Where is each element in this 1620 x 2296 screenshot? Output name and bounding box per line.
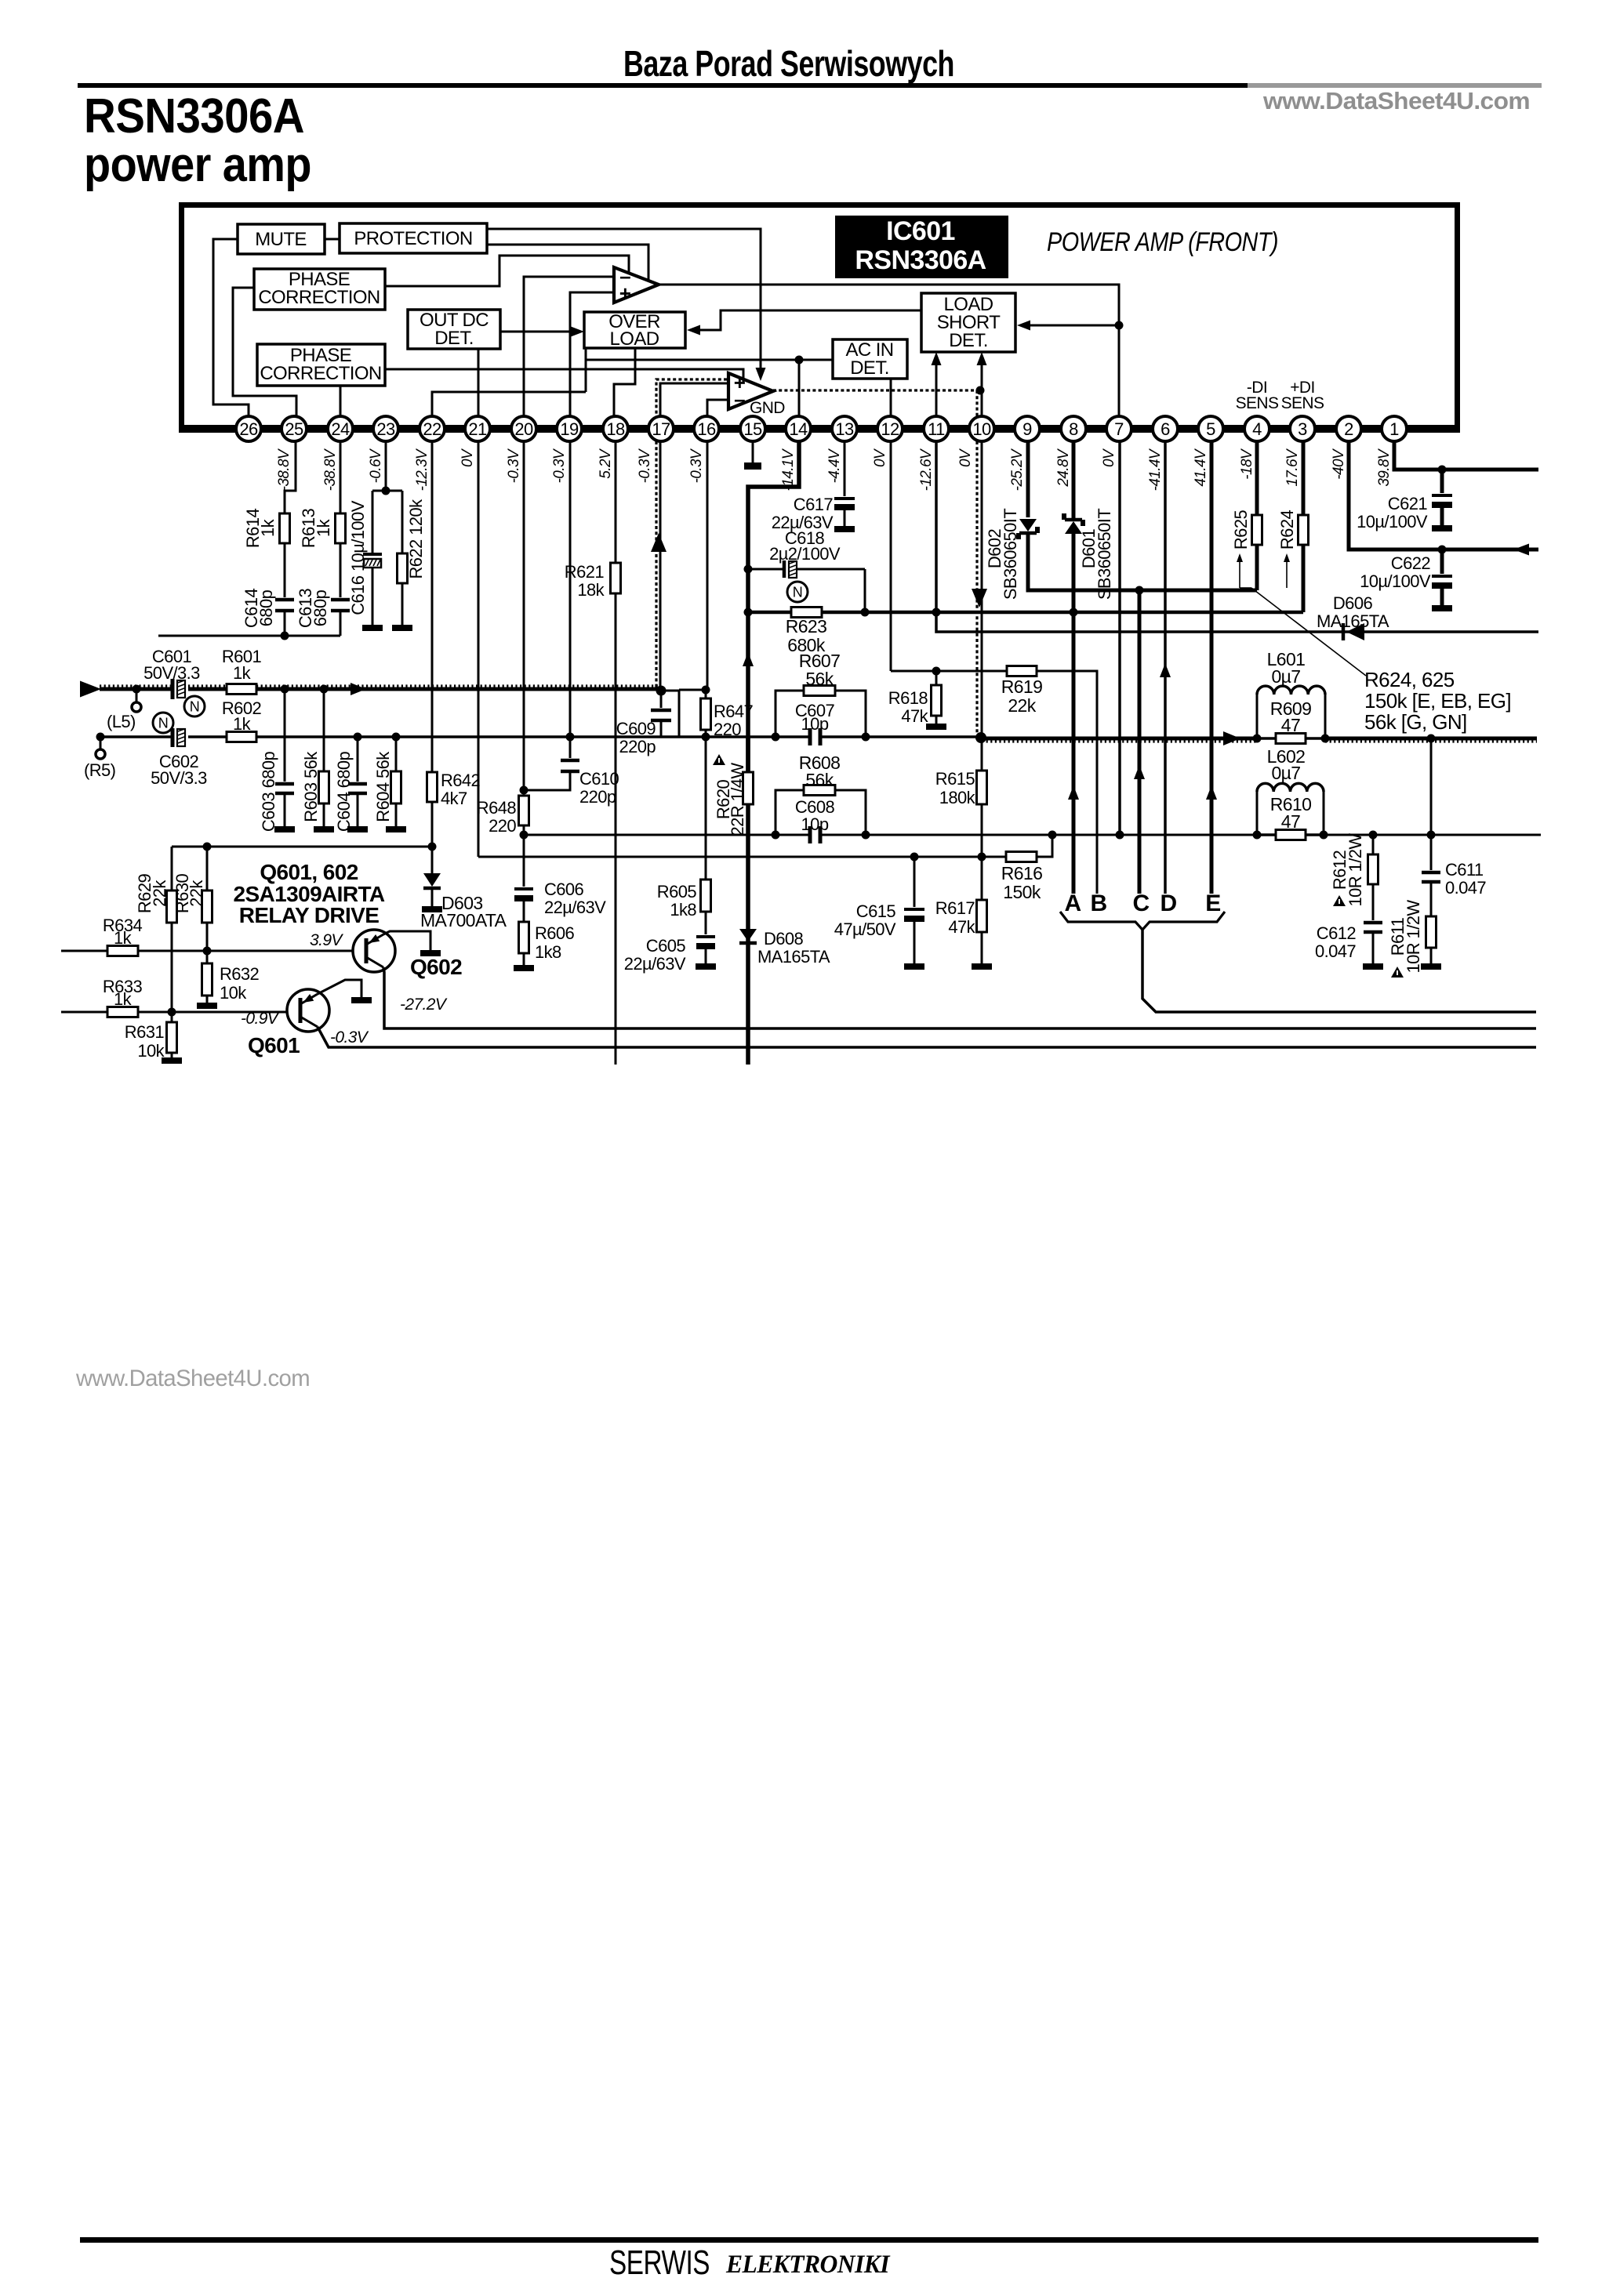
wire C606 to R606 bbox=[523, 901, 525, 922]
wire pin 17 shielded to comparator U1b non-inverting input bbox=[656, 379, 728, 425]
wire C612 to rail bbox=[1372, 932, 1375, 963]
svg-text:56k [G, GN]: 56k [G, GN] bbox=[1364, 710, 1467, 734]
arrow input L5 bbox=[80, 681, 101, 698]
node comparator output junction bbox=[1115, 321, 1124, 330]
svg-text:18: 18 bbox=[606, 419, 625, 439]
node C618 left bbox=[744, 565, 753, 574]
svg-text:C604 680p: C604 680p bbox=[334, 752, 354, 832]
node L5 line end junction bbox=[656, 686, 667, 696]
node L602 right bbox=[1320, 831, 1328, 840]
pin 2 bbox=[1336, 416, 1361, 441]
diode D601 schottky bbox=[1065, 518, 1082, 522]
wire pin 18 long column bbox=[615, 441, 617, 1065]
svg-text:-0.3V: -0.3V bbox=[637, 448, 653, 483]
rail end R622 bbox=[392, 625, 412, 631]
wire pin 19 down to R5 line bbox=[569, 441, 572, 737]
footer rule bbox=[80, 2237, 1538, 2243]
pin 14 bbox=[786, 416, 811, 441]
pin 8 bbox=[1061, 416, 1086, 441]
node C614 junction bbox=[281, 632, 289, 640]
node AC IN line junction at pin 14 column bbox=[795, 356, 804, 365]
IC601 label box bbox=[835, 216, 1008, 278]
pin 17 bbox=[648, 416, 674, 441]
svg-text:47: 47 bbox=[1281, 715, 1300, 735]
node pin7 to L-B line bbox=[1116, 831, 1124, 840]
svg-text:C605: C605 bbox=[646, 936, 686, 956]
resistor R631 bbox=[171, 1012, 173, 1022]
block PHASE CORRECTION lower bbox=[257, 344, 385, 386]
diode D603 bbox=[431, 847, 434, 873]
resistor R601 bbox=[227, 684, 256, 695]
svg-text:56k: 56k bbox=[805, 770, 834, 790]
svg-text:R605: R605 bbox=[657, 882, 697, 901]
wire OUT DC DET to pin 21 bbox=[478, 349, 480, 425]
block LOAD SHORT DET. bbox=[921, 293, 1015, 352]
circled N near C601 bbox=[184, 696, 205, 716]
wire R619 to B bus bbox=[1037, 671, 1097, 894]
arrow up on A bus bbox=[1068, 785, 1079, 800]
svg-text:GND: GND bbox=[750, 399, 785, 417]
diode D606 bbox=[1346, 623, 1364, 640]
ground pin 15 bbox=[744, 462, 761, 470]
svg-text:IC601: IC601 bbox=[886, 216, 955, 246]
svg-text:DET.: DET. bbox=[949, 330, 988, 351]
svg-text:POWER AMP (FRONT): POWER AMP (FRONT) bbox=[1047, 227, 1278, 257]
wire stubs C608 bbox=[775, 834, 810, 836]
pin 3 bbox=[1290, 416, 1315, 441]
wire pin 5 E bus bbox=[1210, 441, 1214, 894]
wire pin 3 down through R624 bbox=[1302, 441, 1306, 515]
svg-text:R619: R619 bbox=[1001, 676, 1043, 697]
capacitor C603 bbox=[284, 689, 286, 782]
svg-text:0V: 0V bbox=[459, 448, 476, 467]
wire R606 to rail bbox=[523, 953, 525, 965]
wire R622 to rail bbox=[401, 583, 404, 625]
svg-text:R615: R615 bbox=[935, 769, 975, 789]
svg-text:47k: 47k bbox=[948, 917, 975, 937]
svg-text:7: 7 bbox=[1114, 419, 1124, 439]
pin 6 bbox=[1153, 416, 1178, 441]
svg-text:5.2V: 5.2V bbox=[598, 448, 614, 479]
svg-text:C610: C610 bbox=[579, 769, 619, 789]
svg-text:-38.8V: -38.8V bbox=[276, 448, 292, 491]
svg-text:-0.3V: -0.3V bbox=[506, 448, 522, 483]
svg-text:150k [E, EB, EG]: 150k [E, EB, EG] bbox=[1364, 689, 1511, 713]
wire brace to bottom line 1 bbox=[1142, 930, 1536, 1012]
wire L5-end jog to R647 top bbox=[661, 691, 679, 737]
wire pin 19 to comparator U1a non-inverting input bbox=[570, 292, 614, 425]
wire stubs R609 bbox=[1257, 737, 1276, 740]
svg-text:12: 12 bbox=[881, 419, 899, 439]
node C bus junction bbox=[1135, 586, 1144, 595]
svg-text:24: 24 bbox=[331, 419, 350, 439]
node R647 top bbox=[702, 686, 710, 695]
wire LOAD SHORT DET to OVER LOAD loop bbox=[697, 310, 921, 330]
wire OUT DC DET to OVER LOAD bbox=[500, 331, 575, 333]
node C607 right bbox=[862, 733, 870, 742]
svg-text:CORRECTION: CORRECTION bbox=[260, 363, 381, 384]
svg-text:25: 25 bbox=[285, 419, 303, 439]
resistor R611 bbox=[1426, 916, 1437, 948]
wire R616 up to L-B bbox=[1037, 835, 1052, 857]
header rule bbox=[78, 83, 1248, 88]
capacitor C613 bbox=[331, 598, 350, 602]
wire junction up to LOAD SHORT DET bbox=[981, 358, 983, 390]
svg-text:-4.4V: -4.4V bbox=[826, 448, 843, 483]
resistor R633 bbox=[107, 1007, 138, 1017]
svg-text:C615: C615 bbox=[856, 901, 896, 921]
capacitor C606 polarized bbox=[514, 887, 533, 890]
wire stubs R610 bbox=[1257, 833, 1276, 836]
svg-text:20: 20 bbox=[514, 419, 533, 439]
svg-text:-18V: -18V bbox=[1239, 448, 1255, 480]
node R612 top bbox=[1369, 831, 1378, 840]
svg-text:-0.3V: -0.3V bbox=[551, 448, 568, 483]
resistor R603 bbox=[323, 689, 325, 771]
node R647 bottom on R5 bbox=[702, 733, 710, 742]
svg-text:220: 220 bbox=[714, 720, 741, 739]
wire C613 to bus bbox=[340, 611, 342, 636]
wire pin 8 down through D601 bbox=[1072, 441, 1076, 520]
warning R612 bbox=[1333, 895, 1346, 906]
svg-text:Q602: Q602 bbox=[410, 955, 462, 979]
wire R611 to rail bbox=[1430, 948, 1433, 963]
node pin10 output junction bbox=[975, 732, 986, 743]
svg-text:C612: C612 bbox=[1317, 923, 1357, 943]
svg-text:E: E bbox=[1205, 890, 1220, 916]
wire PHASE CORRECTION upper to pin 25 bbox=[233, 288, 296, 425]
loop R608 parallel C608 bbox=[775, 790, 804, 835]
input line R5 bbox=[100, 735, 171, 738]
svg-text:R603 56k: R603 56k bbox=[301, 751, 321, 822]
svg-text:-12.6V: -12.6V bbox=[918, 448, 935, 491]
node R623 right bbox=[861, 608, 870, 617]
svg-text:R624, 625: R624, 625 bbox=[1364, 668, 1455, 691]
svg-text:26: 26 bbox=[239, 419, 258, 439]
wire pin 22 down through R642 bbox=[431, 441, 434, 772]
svg-text:10k: 10k bbox=[220, 983, 247, 1003]
pin 5 bbox=[1198, 416, 1223, 441]
svg-text:SERWIS: SERWIS bbox=[609, 2243, 710, 2282]
svg-text:C616 10µ/100V: C616 10µ/100V bbox=[348, 500, 368, 615]
svg-text:10µ/100V: 10µ/100V bbox=[1357, 512, 1428, 531]
svg-text:1k: 1k bbox=[314, 518, 333, 537]
svg-text:R618: R618 bbox=[888, 688, 928, 708]
svg-text:220p: 220p bbox=[579, 787, 616, 807]
wire C bus down bbox=[1138, 590, 1142, 894]
wire pin 14 jog to main vertical bbox=[748, 441, 799, 1065]
pin 19 bbox=[557, 416, 582, 441]
svg-text:17: 17 bbox=[652, 419, 670, 439]
wire R634 line bbox=[61, 950, 352, 952]
circled N near C602 bbox=[153, 713, 173, 733]
resistor R618 bbox=[935, 671, 938, 685]
wire R613 to C613 bbox=[340, 543, 342, 597]
node C611 on L-B bbox=[1427, 831, 1436, 840]
svg-text:C617: C617 bbox=[794, 495, 834, 514]
block PROTECTION bbox=[340, 223, 487, 253]
svg-text:47k: 47k bbox=[901, 706, 928, 726]
wire PHASE CORRECTION lower to comparator U1b plus bbox=[385, 369, 743, 382]
svg-text:18k: 18k bbox=[577, 580, 605, 600]
svg-text:+: + bbox=[619, 281, 631, 305]
wire pin 16 to comparator U1b inverting input bbox=[707, 400, 728, 425]
svg-text:50V/3.3: 50V/3.3 bbox=[151, 768, 207, 788]
svg-text:R617: R617 bbox=[935, 898, 975, 918]
svg-text:C: C bbox=[1132, 890, 1149, 916]
svg-text:R642: R642 bbox=[441, 771, 481, 790]
svg-text:N: N bbox=[793, 585, 802, 600]
wire OVER LOAD left output down bbox=[585, 348, 587, 392]
svg-text:R625: R625 bbox=[1231, 510, 1251, 550]
capacitor C608 on L-B line bbox=[808, 826, 812, 843]
node pin19 R5 junction bbox=[566, 733, 575, 742]
wire R625 to line4 bbox=[1255, 545, 1259, 590]
wire junction to pin 14 bbox=[798, 360, 801, 425]
svg-text:www.DataSheet4U.com: www.DataSheet4U.com bbox=[1262, 87, 1530, 114]
svg-text:47µ/50V: 47µ/50V bbox=[834, 919, 896, 939]
svg-text:1k: 1k bbox=[258, 518, 278, 537]
node R616 to L-B bbox=[1048, 831, 1057, 840]
svg-text:0µ7: 0µ7 bbox=[1271, 763, 1300, 783]
svg-text:MA165TA: MA165TA bbox=[757, 947, 830, 967]
node C610 to R648 top bbox=[520, 786, 528, 795]
node R607 left on R5 line bbox=[772, 733, 780, 742]
svg-text:14: 14 bbox=[789, 419, 808, 439]
svg-text:C621: C621 bbox=[1388, 494, 1428, 513]
node R5 junction R604 bbox=[392, 733, 401, 742]
wire pin 11 down to D606 line bbox=[936, 441, 1538, 632]
capacitor C615 polarized bbox=[914, 857, 916, 907]
svg-text:www.DataSheet4U.com: www.DataSheet4U.com bbox=[75, 1366, 310, 1391]
svg-text:(R5): (R5) bbox=[84, 760, 115, 780]
svg-text:10µ/100V: 10µ/100V bbox=[1360, 571, 1431, 591]
input line L5 hatched bbox=[100, 687, 171, 691]
svg-text:N: N bbox=[158, 716, 168, 731]
bias line L-D bbox=[172, 846, 432, 848]
svg-text:6: 6 bbox=[1161, 419, 1170, 439]
svg-text:15: 15 bbox=[743, 419, 762, 439]
svg-text:220: 220 bbox=[489, 816, 516, 836]
line R623 to pin 3 bbox=[748, 611, 791, 615]
warning R611 bbox=[1391, 967, 1404, 978]
svg-text:D606: D606 bbox=[1333, 593, 1373, 613]
svg-text:SB360650IT: SB360650IT bbox=[1001, 509, 1020, 600]
svg-text:RSN3306A: RSN3306A bbox=[855, 245, 986, 275]
wire PROTECTION to comparator U1b bbox=[487, 229, 761, 373]
svg-text:4: 4 bbox=[1252, 419, 1262, 439]
svg-text:Q601: Q601 bbox=[248, 1033, 300, 1057]
resistor R617 bbox=[981, 857, 983, 900]
wire R605 chain bbox=[705, 737, 707, 880]
wire bias bus R629-R630 to D603 node bbox=[172, 846, 432, 848]
wire pin 10 shielded down to output line bbox=[975, 441, 978, 735]
resistor R642 bbox=[427, 772, 438, 802]
wire pin 20 down bbox=[523, 441, 525, 790]
capacitor C601 electrolytic bbox=[171, 679, 175, 699]
resistor R607 bbox=[804, 686, 835, 696]
svg-text:22k: 22k bbox=[150, 880, 169, 907]
resistor R609 on output line bbox=[1276, 734, 1306, 744]
arrow up on D bus bbox=[1160, 663, 1171, 677]
svg-text:SENS: SENS bbox=[1281, 394, 1324, 412]
wire pin 21 down to feedback line bbox=[478, 441, 480, 857]
pin 22 bbox=[420, 416, 445, 441]
svg-text:R624: R624 bbox=[1277, 510, 1297, 550]
svg-text:19: 19 bbox=[560, 419, 579, 439]
svg-text:0.047: 0.047 bbox=[1315, 941, 1356, 961]
feedback line L-B bbox=[522, 834, 775, 836]
resistor R622 bbox=[398, 553, 408, 583]
wire OVER LOAD to pin 18 bbox=[614, 348, 635, 425]
resistor R647 bbox=[705, 690, 707, 698]
pin 26 bbox=[236, 416, 261, 441]
svg-text:39.8V: 39.8V bbox=[1376, 448, 1393, 487]
pin 10 bbox=[969, 416, 994, 441]
rail end R606 bbox=[514, 965, 534, 971]
wire horizontal stub under C614/C613 bbox=[158, 635, 340, 637]
resistor R612 bbox=[1372, 835, 1375, 854]
svg-text:3.9V: 3.9V bbox=[310, 931, 343, 949]
wire to LOAD SHORT DET right input bbox=[1027, 325, 1119, 327]
node R630 top bbox=[203, 843, 212, 851]
arrow up on C bus bbox=[1134, 765, 1145, 779]
svg-text:R606: R606 bbox=[535, 923, 575, 943]
resistor R632 bbox=[206, 951, 209, 963]
svg-text:C606: C606 bbox=[544, 880, 584, 899]
wire pin 11 to LOAD SHORT DET bbox=[935, 358, 938, 425]
pin 24 bbox=[328, 416, 353, 441]
wire D602 to line4 bbox=[1028, 533, 1257, 590]
wire pin 23 down bbox=[385, 441, 387, 491]
svg-text:11: 11 bbox=[928, 419, 945, 439]
wire D601 to A bus bbox=[1072, 534, 1076, 894]
wire C616 to rail bbox=[372, 568, 374, 625]
terminal circle L5 bbox=[136, 689, 138, 702]
diode D608 bbox=[739, 929, 757, 941]
rail end R611 bbox=[1421, 963, 1441, 970]
wire pin 16 down to R647 bbox=[706, 441, 709, 688]
svg-text:1: 1 bbox=[1389, 419, 1399, 439]
svg-text:1k: 1k bbox=[233, 714, 252, 734]
svg-text:1k: 1k bbox=[114, 928, 133, 948]
block OVER LOAD bbox=[584, 312, 685, 348]
brace under bus labels bbox=[1060, 912, 1225, 930]
wire C609 to R5 line bbox=[660, 720, 663, 737]
svg-text:MA700ATA: MA700ATA bbox=[420, 910, 507, 930]
node R623 left bbox=[744, 608, 753, 617]
node R630 R632 junction bbox=[203, 947, 212, 956]
pin 15 bbox=[740, 416, 765, 441]
wire R612 to C612 bbox=[1372, 884, 1375, 920]
wire C605 to rail bbox=[705, 949, 707, 963]
svg-text:-27.2V: -27.2V bbox=[400, 996, 448, 1014]
svg-text:B: B bbox=[1090, 890, 1106, 916]
pointer line to R624 R625 bbox=[1251, 588, 1366, 676]
svg-text:0V: 0V bbox=[872, 448, 888, 467]
svg-text:-41.4V: -41.4V bbox=[1147, 448, 1164, 491]
svg-text:22k: 22k bbox=[1008, 695, 1036, 716]
rail end C612 bbox=[1363, 963, 1383, 970]
svg-text:16: 16 bbox=[697, 419, 716, 439]
resistor R606 bbox=[519, 922, 529, 953]
svg-text:10: 10 bbox=[972, 419, 991, 439]
svg-text:R632: R632 bbox=[220, 964, 260, 984]
svg-text:22: 22 bbox=[423, 419, 441, 439]
resistor R623 bbox=[791, 608, 822, 618]
resistor R613 bbox=[336, 513, 346, 543]
wire C614 to bus bbox=[284, 611, 286, 636]
capacitor C617 polarized bbox=[834, 497, 855, 500]
node R629 R631 junction bbox=[168, 1008, 176, 1017]
wire R614 to C614 bbox=[284, 543, 286, 597]
svg-text:22µ/63V: 22µ/63V bbox=[544, 898, 606, 917]
resistor R648 bbox=[519, 796, 529, 825]
capacitor C611 bbox=[1422, 871, 1440, 875]
wire pin 2 to C622 line bbox=[1349, 441, 1538, 550]
svg-text:13: 13 bbox=[835, 419, 854, 439]
svg-text:180k: 180k bbox=[939, 788, 976, 807]
svg-text:C611: C611 bbox=[1445, 860, 1484, 880]
pin 13 bbox=[832, 416, 857, 441]
svg-text:680p: 680p bbox=[311, 589, 330, 626]
wire R607 right down bbox=[835, 691, 866, 737]
svg-text:Q601, 602: Q601, 602 bbox=[260, 860, 358, 884]
capacitor C621 polarized bbox=[1440, 470, 1444, 493]
resistor R615 bbox=[981, 738, 983, 771]
wire R605 to C605 bbox=[705, 912, 707, 934]
svg-text:10p: 10p bbox=[801, 814, 829, 834]
svg-text:SB360650IT: SB360650IT bbox=[1095, 509, 1114, 600]
svg-text:SENS: SENS bbox=[1236, 394, 1279, 412]
IC601 outer box bbox=[179, 202, 1460, 208]
wire Q602 emitter to line 2 bbox=[383, 967, 1536, 1028]
wire to C616 bbox=[372, 491, 374, 553]
svg-text:LOAD: LOAD bbox=[610, 328, 659, 350]
resistor R602 bbox=[227, 732, 256, 742]
node R608 left bbox=[772, 831, 780, 840]
capacitor C605 polarized bbox=[696, 935, 715, 938]
node C608 right bbox=[862, 831, 870, 840]
node L601 left bbox=[1253, 735, 1262, 743]
node R5 terminal bbox=[96, 733, 105, 742]
capacitor C610 bbox=[569, 737, 572, 758]
pin 23 bbox=[373, 416, 398, 441]
block MUTE bbox=[238, 224, 325, 254]
svg-text:0µ7: 0µ7 bbox=[1271, 666, 1300, 687]
resistor R621 bbox=[611, 563, 621, 593]
wire R642 to node bbox=[431, 802, 434, 847]
wire pin 7 down to feedback bbox=[1118, 441, 1121, 835]
diode D602 schottky bbox=[1019, 519, 1037, 531]
svg-text:R622 120k: R622 120k bbox=[406, 499, 426, 579]
svg-text:-40V: -40V bbox=[1331, 448, 1347, 480]
svg-text:56k: 56k bbox=[805, 669, 834, 689]
svg-text:150k: 150k bbox=[1003, 882, 1041, 902]
wire pin 20 to comparator U1a inverting input bbox=[524, 277, 614, 425]
capacitor C614 bbox=[275, 598, 294, 602]
pin 18 bbox=[603, 416, 628, 441]
svg-text:0V: 0V bbox=[957, 448, 974, 467]
block AC IN DET. bbox=[833, 339, 907, 379]
svg-text:220p: 220p bbox=[619, 737, 656, 756]
svg-text:3: 3 bbox=[1298, 419, 1307, 439]
wire pin 24 to R613 bbox=[340, 441, 342, 513]
wire Q601 collector to bar bbox=[318, 980, 361, 997]
arrow up on pin14 column bbox=[743, 652, 754, 666]
wire C618 right down to R623 line bbox=[864, 569, 866, 612]
svg-text:R623: R623 bbox=[786, 616, 827, 637]
